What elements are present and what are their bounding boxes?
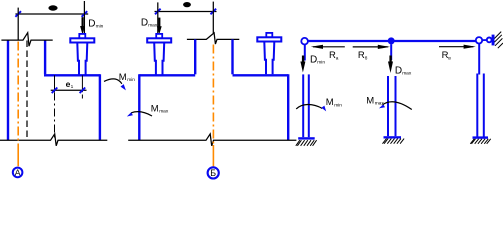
top break line with zigzag (1, 33, 52, 47)
left frame hinge (301, 38, 308, 45)
right column upper segment (478, 44, 480, 75)
roof beam (305, 40, 481, 42)
middle frame node (388, 37, 395, 44)
moment arc Mmin (fig1) (104, 79, 122, 84)
column B upper right edge (231, 39, 233, 74)
left column lower double line (302, 74, 304, 137)
svg-text:Б: Б (210, 168, 216, 178)
crane position dot (183, 2, 191, 7)
right base hatching (470, 139, 490, 144)
force arrow Dmax (frame) (388, 56, 393, 74)
left column upper segment (304, 44, 306, 61)
moment arc Mmax (fig2) (131, 112, 152, 116)
left base hatching (296, 140, 317, 146)
right corbel top B (233, 74, 289, 76)
axis B centerline (orange) (212, 45, 214, 146)
svg-text:M: M (326, 97, 334, 108)
right column lower double line (476, 74, 478, 138)
svg-text:max: max (148, 24, 158, 29)
column B lower left edge (138, 74, 140, 140)
svg-text:1: 1 (71, 84, 74, 90)
reaction arrow Rv (points right) (439, 46, 473, 48)
svg-text:M: M (151, 104, 159, 115)
force arrow Dmax (157, 18, 162, 35)
right base plate (473, 136, 489, 138)
lower column axis (dash-dot) (54, 93, 56, 140)
svg-text:max: max (402, 72, 412, 77)
dimension tick left (155, 9, 161, 15)
middle column upper segment (390, 44, 392, 60)
e1 extension line right (crane axis) (81, 75, 83, 92)
dimension line top (15, 13, 88, 15)
e1 tick left (52, 88, 58, 94)
left corbel top B (139, 74, 195, 76)
svg-text:D: D (395, 66, 402, 77)
extension line axis B (212, 2, 214, 33)
crane beam and rail on right corbel B (257, 33, 281, 74)
middle base plate (384, 136, 402, 138)
e1 extension line left (54, 75, 56, 92)
svg-text:min: min (96, 24, 104, 30)
dimension tick right (82, 11, 88, 17)
svg-text:D: D (141, 18, 148, 29)
dimension tick right (211, 9, 217, 15)
svg-text:в: в (448, 56, 451, 61)
e1 tick right (80, 88, 86, 94)
svg-text:min: min (334, 102, 342, 108)
upper column axis (dashed) (26, 41, 28, 140)
svg-text:min: min (127, 77, 135, 83)
dimension tick left (15, 11, 21, 17)
moment arc Mmin (frame) (296, 104, 322, 108)
svg-text:M: M (119, 72, 127, 83)
force arrow Dmin (80, 17, 85, 34)
top break line with zigzag (187, 33, 239, 44)
middle column lower double line (387, 76, 389, 136)
e1 dimension line (51, 89, 87, 91)
support wall bar (492, 35, 495, 46)
extension line axis A (17, 8, 19, 40)
extension line crane axis (83, 1, 85, 38)
axis circle A (13, 168, 23, 178)
svg-text:а: а (336, 56, 339, 61)
svg-text:б: б (365, 55, 368, 61)
reaction arrow Ra (points left) (313, 46, 345, 48)
force arrow Dmin (frame) (300, 56, 305, 73)
crane beam and rail on left corbel B (147, 34, 171, 75)
svg-text:min: min (317, 59, 325, 65)
svg-text:max: max (159, 110, 169, 115)
crane beam and rail on corbel A (70, 34, 94, 75)
reaction arrow Rb (points right) (353, 46, 388, 48)
crane position dot (48, 5, 57, 10)
svg-text:max: max (375, 102, 385, 107)
svg-text:А: А (15, 168, 21, 178)
column B upper left edge (194, 39, 196, 74)
right frame hinge (476, 37, 482, 43)
extension line crane axis (157, 2, 159, 37)
dimension line top (155, 11, 217, 13)
bottom break line with zigzag (128, 134, 296, 146)
moment arrowhead Mmin (fig1) (121, 84, 126, 90)
corbel top A (44, 74, 100, 76)
short dash below crane axis (81, 95, 83, 99)
moment arrowhead Mmin (frame) (321, 106, 326, 112)
support link bar (482, 39, 488, 41)
moment arrowhead Mmax (fig2) (127, 112, 133, 116)
column A lower inner edge (99, 74, 101, 140)
axis circle B (208, 167, 219, 178)
support link circle (487, 38, 492, 43)
left base plate (298, 137, 315, 139)
support wall hatching (494, 32, 503, 49)
column A outer edge (7, 40, 9, 140)
svg-text:D: D (310, 54, 317, 65)
middle base hatching (383, 139, 405, 144)
axis A centerline (orange) (17, 42, 19, 146)
column A upper inner edge (44, 40, 46, 74)
svg-text:M: M (366, 96, 374, 107)
moment arc Mmax (frame) (383, 102, 412, 110)
column B lower right edge (287, 74, 289, 140)
svg-text:D: D (88, 19, 95, 30)
moment arrowhead Mmax (frame) (379, 104, 385, 108)
bottom break line with zigzag (0, 134, 107, 146)
